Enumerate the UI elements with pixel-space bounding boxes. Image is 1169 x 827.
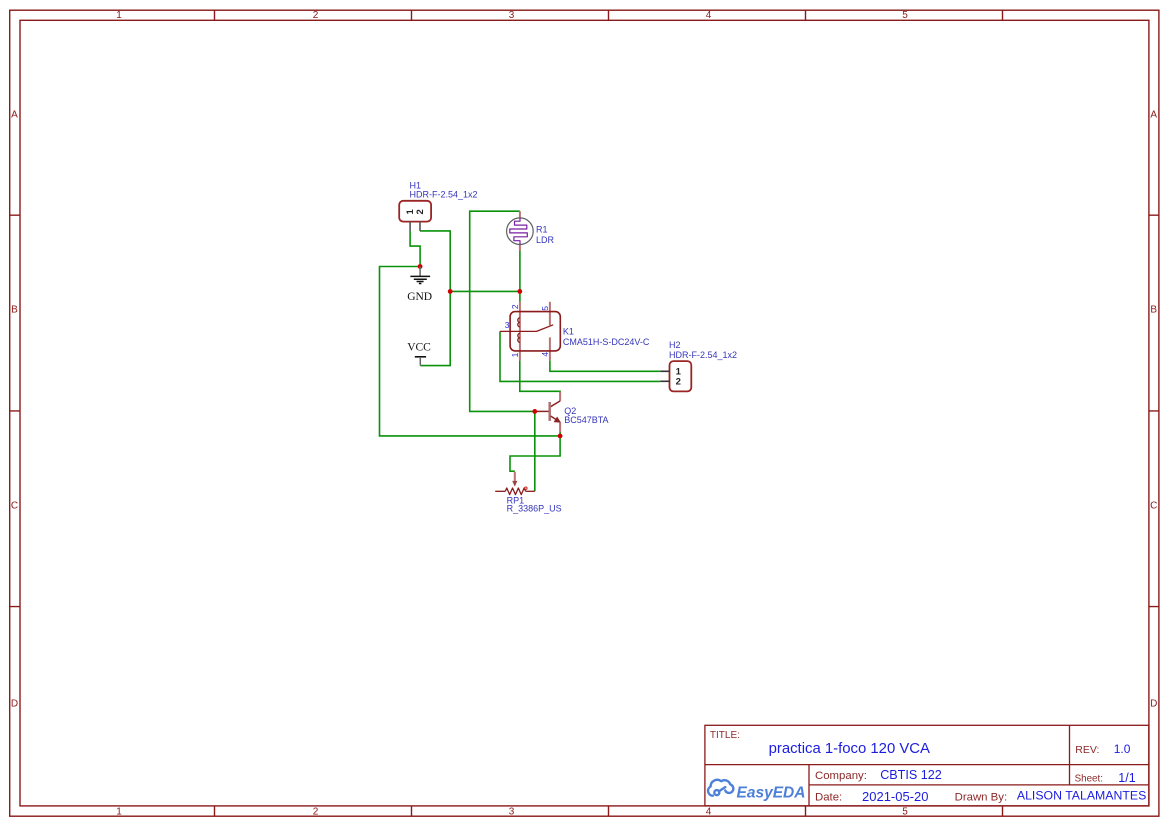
header H2 body	[670, 361, 692, 391]
svg-text:VCC: VCC	[407, 341, 431, 353]
svg-text:EasyEDA: EasyEDA	[737, 784, 806, 801]
svg-text:A: A	[1150, 110, 1157, 121]
svg-text:2021-05-20: 2021-05-20	[862, 789, 929, 804]
relay K1 pin 4 stub	[549, 337, 551, 360]
svg-text:R_3386P_US: R_3386P_US	[507, 504, 562, 514]
svg-text:4: 4	[706, 10, 712, 21]
svg-text:A: A	[11, 110, 18, 121]
transistor Q2 emitter diagonal	[551, 416, 561, 422]
svg-text:D: D	[1150, 699, 1157, 710]
ruler ticks left	[10, 215, 20, 606]
svg-text:5: 5	[902, 10, 908, 21]
svg-text:HDR-F-2.54_1x2: HDR-F-2.54_1x2	[669, 350, 737, 360]
svg-text:REV:: REV:	[1075, 744, 1099, 756]
wire LDR bottom to K1 pin2	[519, 251, 521, 302]
ruler numbers top	[116, 10, 908, 21]
svg-text:CBTIS 122: CBTIS 122	[880, 768, 942, 782]
relay K1 pin 3 line	[500, 330, 537, 332]
relay K1 pin 2 stub	[519, 302, 521, 360]
transistor Q2 collector stub	[559, 392, 561, 402]
potentiometer RP1 end marker	[525, 487, 527, 489]
junction node Q2 emitter	[558, 434, 563, 439]
svg-text:HDR-F-2.54_1x2: HDR-F-2.54_1x2	[410, 189, 478, 199]
wire VCC node to LDR bottom node	[450, 290, 520, 292]
svg-text:3: 3	[505, 320, 510, 330]
junction node VCC	[448, 289, 453, 294]
wire LDR top to Q2 base node	[470, 211, 535, 411]
ruler letters right	[1150, 110, 1157, 710]
EasyEDA logo cloud	[708, 780, 733, 796]
svg-text:1.0: 1.0	[1114, 742, 1131, 756]
svg-text:C: C	[1150, 501, 1157, 512]
svg-text:C: C	[11, 501, 18, 512]
photoresistor R1 circle	[507, 218, 534, 245]
svg-text:D: D	[11, 699, 18, 710]
relay K1 pin 5 stub	[549, 302, 551, 326]
svg-text:2: 2	[510, 304, 520, 309]
svg-text:CMA51H-S-DC24V-C: CMA51H-S-DC24V-C	[563, 337, 650, 347]
transistor Q2 emitter stub	[559, 422, 561, 432]
svg-text:Company:: Company:	[815, 770, 867, 782]
svg-text:BC547BTA: BC547BTA	[564, 415, 608, 425]
svg-text:ALISON TALAMANTES: ALISON TALAMANTES	[1017, 789, 1146, 803]
junction node LDR-K1	[517, 289, 522, 294]
potentiometer RP1 wiper stem	[514, 472, 516, 481]
svg-text:H2: H2	[669, 340, 681, 350]
svg-text:1: 1	[116, 10, 122, 21]
wire K1 pin3 to H2 pin2	[500, 331, 660, 381]
GND symbol	[410, 267, 430, 284]
ruler letters left	[11, 110, 18, 710]
wire K1 pin1 to Q2 collector	[520, 360, 560, 392]
svg-text:LDR: LDR	[536, 235, 555, 245]
svg-text:Date:: Date:	[815, 792, 842, 804]
svg-text:1: 1	[510, 352, 520, 357]
title block row divider 2	[809, 784, 1149, 786]
wire H1 pin1 to GND node	[410, 231, 420, 267]
svg-text:2: 2	[313, 10, 319, 21]
svg-text:B: B	[11, 305, 18, 316]
header H1 body	[399, 201, 431, 222]
svg-text:Drawn By:: Drawn By:	[955, 792, 1008, 804]
svg-text:R1: R1	[536, 225, 548, 235]
svg-text:3: 3	[509, 807, 515, 818]
svg-text:B: B	[1150, 305, 1157, 316]
wire Q2 base node to RP1 right terminal	[534, 411, 536, 491]
transistor Q2 base bar	[548, 402, 551, 421]
ruler ticks bottom	[215, 806, 1003, 816]
title block row divider 1	[705, 764, 1149, 766]
photoresistor R1 top lead	[519, 211, 521, 218]
svg-text:K1: K1	[563, 326, 574, 336]
svg-text:5: 5	[902, 807, 908, 818]
header H1 pin 1	[409, 222, 411, 231]
junction node Q2 base	[532, 409, 537, 414]
photoresistor R1 meander	[510, 218, 528, 245]
potentiometer RP1 wiper arrow	[512, 481, 517, 487]
junction node GND	[418, 264, 423, 269]
relay K1 body	[510, 312, 560, 351]
svg-text:2: 2	[676, 377, 681, 388]
ruler ticks right	[1149, 215, 1159, 606]
potentiometer RP1 right lead	[526, 490, 535, 492]
header H2 pin 2	[660, 380, 669, 382]
potentiometer RP1 left lead	[495, 490, 505, 492]
title block rev column divider	[1069, 725, 1071, 785]
title block outline	[705, 725, 1149, 806]
svg-text:1: 1	[116, 807, 122, 818]
photoresistor R1 bottom lead	[519, 244, 521, 250]
wire H1 pin2 to VCC node	[420, 231, 450, 292]
title block logo cell divider	[808, 765, 810, 806]
svg-text:practica 1-foco 120 VCA: practica 1-foco 120 VCA	[769, 741, 930, 757]
svg-text:Sheet:: Sheet:	[1075, 774, 1103, 785]
svg-text:4: 4	[706, 807, 712, 818]
header H1 pin 2	[419, 222, 421, 231]
relay K1 coil	[518, 318, 520, 343]
wire VCC node to VCC symbol	[420, 291, 450, 365]
relay K1 switch arm	[537, 325, 554, 332]
svg-text:3: 3	[509, 10, 515, 21]
svg-text:4: 4	[540, 352, 550, 357]
ruler numbers bottom	[116, 807, 908, 818]
wire Q2 emitter to RP1 wiper	[510, 432, 560, 472]
svg-text:2: 2	[313, 807, 319, 818]
svg-text:5: 5	[540, 306, 550, 311]
VCC symbol	[415, 357, 426, 366]
transistor Q2 emitter arrow	[554, 417, 560, 422]
wire K1 pin4 to H2 pin1	[550, 360, 660, 371]
transistor Q2 collector diagonal	[551, 401, 560, 407]
transistor Q2 base pin	[537, 410, 549, 412]
svg-text:1/1: 1/1	[1118, 771, 1135, 785]
potentiometer RP1 zigzag	[505, 488, 525, 495]
wire GND node to emitter node (left loop)	[380, 267, 561, 436]
svg-text:TITLE:: TITLE:	[710, 730, 740, 741]
header H2 pin 1	[660, 370, 669, 372]
svg-text:GND: GND	[407, 291, 432, 303]
svg-text:2: 2	[415, 209, 426, 214]
ruler ticks top	[215, 10, 1003, 20]
